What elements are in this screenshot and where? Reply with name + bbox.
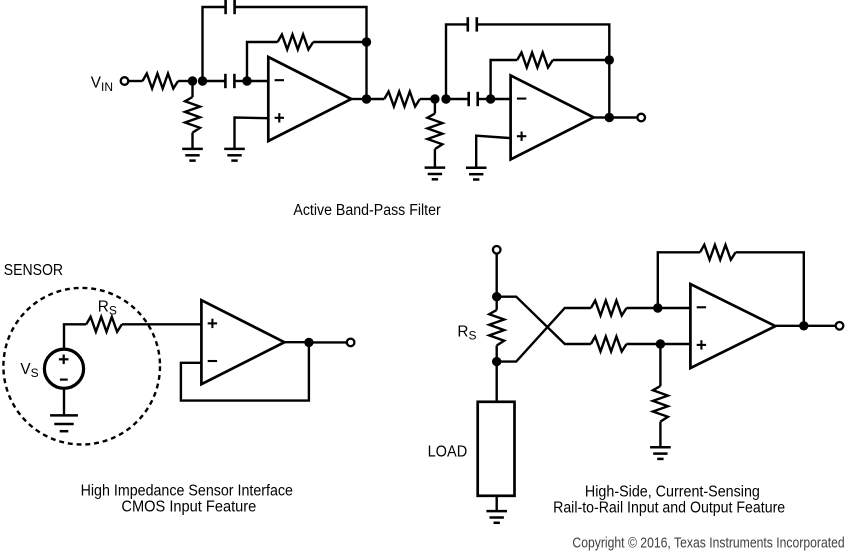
wire node K to output terminal [609, 116, 637, 118]
caption Rail-to-Rail line 2 [553, 499, 785, 516]
capacitor C3 [469, 92, 478, 106]
wire VS to ground [63, 389, 65, 415]
op-amp U4 [690, 284, 775, 368]
wire U2 noninverting input [476, 136, 510, 168]
capacitor C4 feedback [468, 17, 477, 31]
resistor R11 feedback [700, 245, 736, 260]
label RS current sense [457, 324, 476, 343]
wire R5 to ground [434, 149, 436, 168]
node G junction [441, 94, 450, 103]
svg-text:VIN: VIN [91, 75, 113, 94]
node E junction [362, 94, 371, 103]
wire C3 to node H [478, 98, 491, 100]
wire VIN to R1 [128, 80, 142, 82]
node C junction [242, 76, 251, 85]
node A junction [188, 76, 197, 85]
node K junction [605, 113, 614, 122]
ground below R5 [425, 168, 446, 180]
node P junction [656, 339, 665, 348]
label SENSOR [4, 262, 63, 279]
caption copyright [572, 534, 844, 551]
op-amp U3 [201, 300, 284, 384]
terminal sensor output [347, 339, 355, 347]
wire RS2 to node N [496, 346, 498, 362]
node H junction [486, 94, 495, 103]
terminal VIN [121, 77, 129, 85]
wire node B up to C2 [203, 7, 226, 81]
node VIN label [91, 75, 113, 94]
wire node G up to C4 [446, 24, 468, 99]
resistor R12 [653, 386, 668, 422]
svg-text:SENSOR: SENSOR [4, 262, 63, 279]
resistor R2 [185, 97, 200, 133]
node M junction [492, 292, 501, 301]
wire node P to U4 noninverting input [660, 343, 690, 345]
terminal supply top [493, 246, 501, 254]
node J junction [605, 55, 614, 64]
sensor boundary dashed circle [3, 288, 160, 445]
wire node C to U1 inverting input [247, 80, 268, 82]
node F junction [430, 94, 439, 103]
node Q junction [653, 303, 662, 312]
svg-text:VS: VS [20, 361, 38, 380]
wire R4 to node F [420, 98, 435, 100]
op-amp U2 [511, 75, 594, 159]
wire U4 output to node R [776, 325, 804, 327]
node D junction [362, 37, 371, 46]
wire R9 to node P [627, 343, 661, 345]
wire node N to load [496, 362, 498, 402]
node N junction [492, 357, 501, 366]
resistor R5 [427, 114, 442, 150]
resistor R10 to inverting [591, 301, 627, 316]
wire C2 to node D column [235, 7, 367, 42]
ground below R2 [182, 149, 203, 161]
label RS sensor [98, 298, 117, 317]
wire U1 output to node E [351, 98, 366, 100]
svg-text:High-Side, Current-Sensing: High-Side, Current-Sensing [585, 483, 760, 500]
svg-text:High Impedance Sensor Interfac: High Impedance Sensor Interface [81, 482, 293, 499]
node B junction [198, 76, 207, 85]
caption Active Band-Pass Filter [293, 202, 440, 219]
wire node B to C1 [203, 80, 226, 82]
wire node F down to R5 [434, 99, 436, 114]
wire node Q to U4 inverting input [658, 307, 691, 309]
wire R2 to ground [191, 133, 193, 149]
svg-text:Rail-to-Rail Input and Output: Rail-to-Rail Input and Output Feature [553, 499, 785, 516]
wire C4 to node J column [477, 24, 610, 60]
svg-text:RS: RS [457, 324, 476, 343]
wire load to ground [496, 496, 498, 511]
wire R6 to node J [553, 59, 610, 61]
source VS circle [44, 349, 83, 388]
svg-text:RS: RS [98, 298, 117, 317]
ground at U1 noninverting input [224, 149, 245, 161]
wire node C up to R3 [247, 42, 278, 81]
capacitor C2 feedback [226, 0, 235, 14]
label VS [20, 361, 38, 380]
wire supply to node M [496, 254, 498, 297]
svg-text:CMOS Input Feature: CMOS Input Feature [121, 498, 256, 515]
wire R10 to node Q [627, 307, 658, 309]
wire R11 to node R column [736, 252, 804, 325]
label LOAD [428, 444, 468, 461]
wire U3 inverting feedback [181, 343, 309, 401]
load resistor rectangle [478, 402, 515, 496]
wire node L to sensor output terminal [309, 341, 347, 343]
caption High Impedance Sensor Interface line 1 [81, 482, 293, 499]
wire node G to C3 [446, 98, 469, 100]
wire node H up to R6 [491, 60, 518, 99]
wire R12 to ground [659, 422, 661, 448]
wire node D down to node E [365, 42, 367, 99]
wire node A down to R2 [191, 81, 193, 97]
caption CMOS Input Feature line 2 [121, 498, 256, 515]
wire node N cross up [497, 308, 591, 362]
wire RS to U3 noninverting input [122, 323, 202, 325]
wire node J down to node K [608, 60, 610, 118]
resistor R6 feedback [517, 53, 553, 68]
ground at U2 noninverting input [466, 168, 487, 180]
caption High-Side Current-Sensing line 1 [585, 483, 760, 500]
svg-text:Active Band-Pass Filter: Active Band-Pass Filter [293, 202, 440, 219]
svg-text:Copyright © 2016, Texas Instru: Copyright © 2016, Texas Instruments Inco… [572, 534, 844, 551]
wire node R to output terminal [804, 325, 836, 327]
resistor R4 [384, 92, 420, 107]
wire node H to U2 inverting input [491, 98, 511, 100]
terminal VOUT filter [637, 114, 645, 122]
resistor R3 feedback [278, 35, 314, 50]
wire node Q up to R11 [658, 252, 700, 308]
ground below VS [50, 415, 78, 431]
wire R3 to node D [313, 41, 366, 43]
op-amp U1 [268, 57, 351, 141]
resistor RS sensor [86, 317, 122, 332]
node L junction [304, 338, 313, 347]
svg-text:LOAD: LOAD [428, 444, 468, 461]
wire U3 output [285, 341, 309, 343]
wire R1 to node A [178, 80, 192, 82]
wire VS to corner [64, 324, 86, 349]
terminal current sense output [836, 322, 844, 330]
wire U2 output to node K [594, 116, 610, 118]
capacitor C1 [225, 74, 234, 88]
wire node M cross down [497, 297, 591, 344]
wire C1 to node C [234, 80, 247, 82]
resistor R1 [143, 74, 179, 89]
wire node M to RS2 [496, 297, 498, 310]
resistor R9 to noninverting [591, 337, 627, 352]
ground below R12 [650, 447, 671, 459]
wire node P down to R12 [659, 344, 661, 386]
ground below load [486, 511, 507, 523]
wire node E to R4 [367, 98, 385, 100]
wire U1 noninverting input [235, 118, 269, 149]
resistor RS current sense [489, 310, 504, 346]
node R junction [799, 321, 808, 330]
